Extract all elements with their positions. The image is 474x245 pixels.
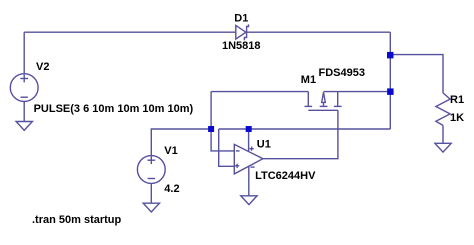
ground of V1	[143, 203, 159, 212]
wire opamp V+ pin	[248, 129, 250, 152]
U1 non-inverting mark	[235, 165, 239, 167]
U1 V- mark	[251, 166, 255, 168]
wire V1 to junction	[151, 129, 211, 156]
voltage source V2	[10, 74, 38, 102]
wire V2 bottom stem	[23, 102, 25, 122]
svg-text:1N5818: 1N5818	[222, 40, 261, 52]
op-amp U1	[234, 144, 263, 174]
wire top horizontal V2 to D1 anode	[24, 31, 236, 33]
wire V2 top vertical	[23, 32, 25, 73]
wire M1 right to node	[324, 91, 391, 93]
ground of V2	[16, 122, 32, 131]
wire D1 cathode to right column	[247, 31, 391, 33]
junction node V+ pin	[246, 126, 252, 132]
svg-text:U1: U1	[257, 139, 271, 151]
wire R1 bottom stem	[442, 125, 444, 143]
mosfet M1	[305, 92, 342, 111]
diode D1	[236, 24, 249, 40]
M1 source leg	[337, 92, 339, 107]
M1 drain leg	[307, 92, 309, 107]
svg-text:1K: 1K	[450, 112, 464, 124]
M1 gate bar	[308, 109, 338, 111]
wire junction to inverting input	[211, 129, 234, 151]
junction node M1 right	[387, 88, 394, 95]
svg-text:V2: V2	[36, 61, 49, 73]
voltage source V1	[137, 156, 165, 184]
wire M1 left horizontal	[211, 91, 308, 93]
wire opamp output to gate	[263, 110, 338, 158]
svg-text:4.2: 4.2	[164, 183, 179, 195]
svg-text:R1: R1	[450, 94, 464, 106]
svg-text:V1: V1	[164, 145, 177, 157]
wire right column vertical	[389, 32, 391, 129]
junction node V1/M1/inv	[208, 126, 214, 132]
wire opamp V- pin	[248, 166, 250, 196]
svg-text:FDS4953: FDS4953	[319, 67, 365, 79]
junction node R1 branch	[387, 52, 394, 59]
U1 V+ mark	[250, 148, 254, 150]
resistor R1	[436, 93, 450, 126]
M1 bulk leg with arrow	[323, 102, 325, 106]
svg-text:.tran 50m startup: .tran 50m startup	[32, 214, 122, 226]
U1 inverting mark	[236, 150, 240, 152]
svg-text:LTC6244HV: LTC6244HV	[255, 170, 316, 182]
svg-text:PULSE(3 6 10m 10m 10m 10m): PULSE(3 6 10m 10m 10m 10m)	[34, 103, 194, 115]
wire feedback node horizontal	[219, 128, 391, 130]
ground of op-amp	[241, 196, 257, 205]
wire M1 left down to junction	[210, 92, 212, 129]
svg-text:M1: M1	[301, 74, 316, 86]
wire feedback to non-inverting input	[219, 129, 235, 166]
wire V1 bottom stem	[150, 183, 152, 203]
wire node to R1 top	[390, 55, 443, 93]
ground of R1	[435, 143, 451, 152]
svg-text:D1: D1	[234, 13, 248, 25]
